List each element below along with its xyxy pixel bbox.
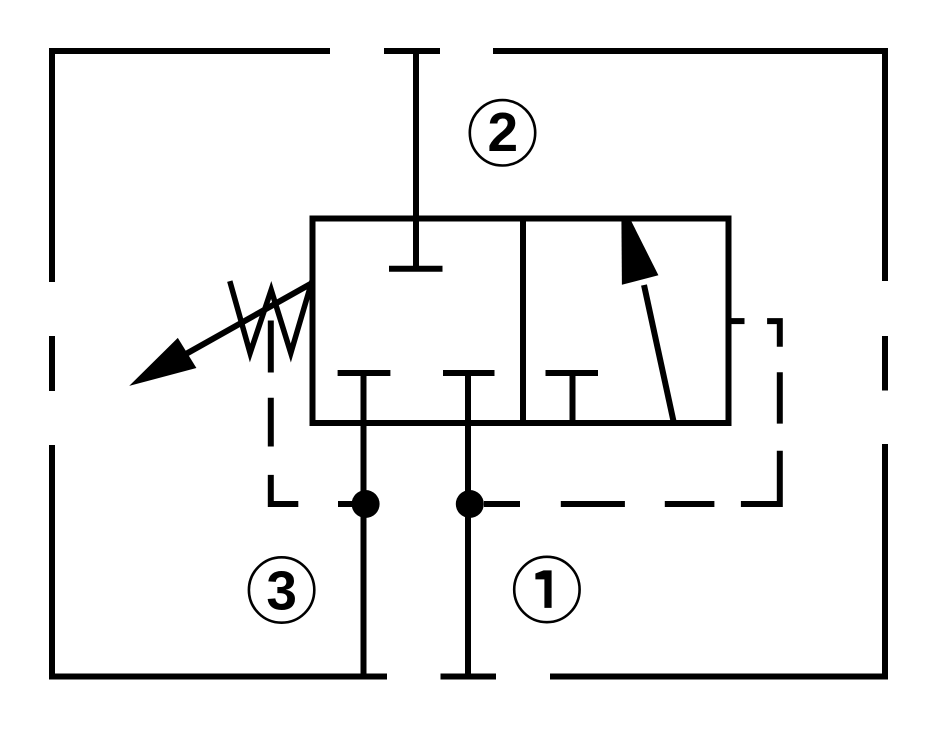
- svg-text:2: 2: [488, 101, 519, 163]
- svg-text:3: 3: [266, 559, 297, 621]
